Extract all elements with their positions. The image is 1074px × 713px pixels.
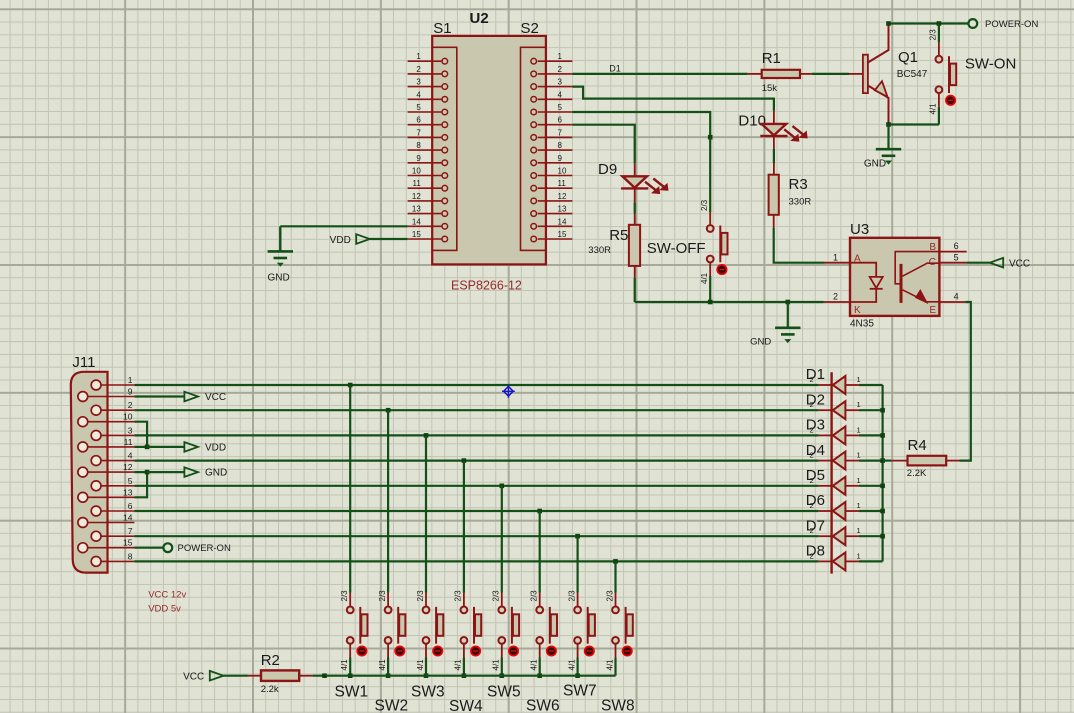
svg-text:12: 12 xyxy=(123,462,133,472)
svg-text:1: 1 xyxy=(857,501,861,510)
svg-text:SW-ON: SW-ON xyxy=(965,56,1016,73)
svg-text:SW5: SW5 xyxy=(487,684,521,701)
svg-text:2/3: 2/3 xyxy=(454,590,463,602)
svg-text:2: 2 xyxy=(810,526,814,535)
svg-text:1: 1 xyxy=(833,252,838,262)
svg-text:4/1: 4/1 xyxy=(530,659,539,671)
svg-text:R4: R4 xyxy=(908,437,927,454)
svg-text:3: 3 xyxy=(558,78,563,87)
svg-text:U3: U3 xyxy=(850,221,869,238)
svg-text:SW3: SW3 xyxy=(411,684,445,701)
svg-text:1: 1 xyxy=(857,425,861,434)
svg-text:SW4: SW4 xyxy=(449,698,483,713)
svg-text:10: 10 xyxy=(123,412,133,422)
svg-text:7: 7 xyxy=(558,128,563,137)
svg-text:2/3: 2/3 xyxy=(416,590,425,602)
svg-text:2: 2 xyxy=(833,292,838,302)
svg-text:2: 2 xyxy=(810,451,814,460)
svg-text:GND: GND xyxy=(205,468,227,479)
svg-text:15: 15 xyxy=(558,230,567,239)
svg-text:POWER-ON: POWER-ON xyxy=(178,543,231,554)
svg-text:VCC: VCC xyxy=(205,392,226,403)
svg-text:R3: R3 xyxy=(789,176,808,193)
svg-text:2/3: 2/3 xyxy=(605,590,614,602)
svg-text:U2: U2 xyxy=(470,10,489,27)
svg-text:2/3: 2/3 xyxy=(700,199,709,211)
svg-text:SW-OFF: SW-OFF xyxy=(647,240,706,257)
svg-text:J11: J11 xyxy=(72,354,95,371)
svg-text:2: 2 xyxy=(810,400,814,409)
svg-text:14: 14 xyxy=(558,217,567,226)
svg-text:4/1: 4/1 xyxy=(492,659,501,671)
svg-text:4: 4 xyxy=(558,90,563,99)
svg-text:10: 10 xyxy=(412,167,421,176)
svg-text:VCC 12v: VCC 12v xyxy=(148,590,186,601)
svg-text:2/3: 2/3 xyxy=(340,590,349,602)
svg-text:D10: D10 xyxy=(738,113,766,130)
svg-text:E: E xyxy=(929,305,936,316)
svg-text:1: 1 xyxy=(857,526,861,535)
svg-text:4/1: 4/1 xyxy=(454,659,463,671)
svg-text:14: 14 xyxy=(412,217,421,226)
svg-text:1: 1 xyxy=(857,451,861,460)
svg-text:10: 10 xyxy=(558,167,567,176)
svg-text:15: 15 xyxy=(123,538,133,548)
svg-text:1: 1 xyxy=(857,476,861,485)
svg-text:D9: D9 xyxy=(598,161,617,178)
svg-text:SW7: SW7 xyxy=(563,683,597,700)
svg-text:1: 1 xyxy=(416,52,421,61)
svg-text:GND: GND xyxy=(864,159,886,170)
svg-text:11: 11 xyxy=(412,179,421,188)
svg-text:4/1: 4/1 xyxy=(700,272,709,284)
svg-text:Q1: Q1 xyxy=(898,49,918,66)
svg-text:330R: 330R xyxy=(789,197,812,208)
svg-text:9: 9 xyxy=(558,154,563,163)
svg-text:8: 8 xyxy=(558,141,563,150)
svg-text:VCC: VCC xyxy=(1009,259,1030,270)
svg-text:4N35: 4N35 xyxy=(850,319,874,330)
svg-text:1: 1 xyxy=(558,52,563,61)
svg-text:4/1: 4/1 xyxy=(340,659,349,671)
svg-text:12: 12 xyxy=(558,192,567,201)
svg-text:2: 2 xyxy=(416,65,421,74)
svg-text:5: 5 xyxy=(954,252,959,262)
svg-text:BC547: BC547 xyxy=(897,69,928,80)
svg-text:7: 7 xyxy=(416,128,421,137)
svg-text:9: 9 xyxy=(416,154,421,163)
svg-text:2: 2 xyxy=(810,375,814,384)
svg-text:2/3: 2/3 xyxy=(492,590,501,602)
svg-text:4/1: 4/1 xyxy=(567,659,576,671)
svg-text:4/1: 4/1 xyxy=(378,659,387,671)
svg-text:13: 13 xyxy=(123,487,133,497)
svg-text:1: 1 xyxy=(857,400,861,409)
svg-text:4/1: 4/1 xyxy=(416,659,425,671)
svg-text:K: K xyxy=(854,305,861,316)
svg-text:4: 4 xyxy=(416,90,421,99)
svg-text:VDD 5v: VDD 5v xyxy=(148,604,181,615)
svg-text:SW2: SW2 xyxy=(375,698,409,713)
svg-text:2/3: 2/3 xyxy=(530,590,539,602)
svg-text:GND: GND xyxy=(750,337,771,348)
svg-text:VCC: VCC xyxy=(183,672,204,683)
svg-text:S1: S1 xyxy=(433,20,451,37)
svg-text:2.2k: 2.2k xyxy=(261,684,279,695)
svg-text:2.2K: 2.2K xyxy=(907,468,927,479)
svg-text:9: 9 xyxy=(128,387,133,397)
svg-text:4: 4 xyxy=(954,292,959,302)
svg-text:5: 5 xyxy=(558,103,563,112)
svg-text:SW1: SW1 xyxy=(335,684,369,701)
svg-text:SW8: SW8 xyxy=(601,698,635,713)
svg-text:14: 14 xyxy=(123,513,133,523)
svg-text:VDD: VDD xyxy=(205,442,226,453)
svg-text:6: 6 xyxy=(558,116,563,125)
svg-text:2: 2 xyxy=(810,476,814,485)
svg-text:1: 1 xyxy=(128,375,133,385)
svg-text:11: 11 xyxy=(124,437,133,447)
svg-text:R2: R2 xyxy=(261,652,280,669)
svg-text:4: 4 xyxy=(128,451,133,461)
svg-text:2/3: 2/3 xyxy=(929,29,938,41)
svg-text:D1: D1 xyxy=(609,63,621,73)
svg-text:4/1: 4/1 xyxy=(929,103,938,115)
svg-text:330R: 330R xyxy=(588,245,611,256)
svg-text:3: 3 xyxy=(128,425,133,435)
svg-text:ESP8266-12: ESP8266-12 xyxy=(451,279,522,293)
svg-text:5: 5 xyxy=(128,476,133,486)
svg-text:R5: R5 xyxy=(609,227,628,244)
svg-text:13: 13 xyxy=(558,205,567,214)
svg-text:6: 6 xyxy=(128,501,133,511)
svg-text:2: 2 xyxy=(558,65,563,74)
svg-text:1: 1 xyxy=(857,551,861,560)
svg-text:11: 11 xyxy=(558,179,567,188)
svg-text:GND: GND xyxy=(267,273,289,284)
svg-text:2: 2 xyxy=(810,551,814,560)
svg-text:15: 15 xyxy=(412,230,421,239)
svg-text:8: 8 xyxy=(128,551,133,561)
svg-text:7: 7 xyxy=(128,526,133,536)
svg-text:R1: R1 xyxy=(762,50,781,67)
svg-text:12: 12 xyxy=(412,192,421,201)
svg-text:3: 3 xyxy=(416,78,421,87)
svg-text:2/3: 2/3 xyxy=(567,590,576,602)
svg-text:15k: 15k xyxy=(762,83,778,94)
svg-text:VDD: VDD xyxy=(330,235,351,246)
svg-text:POWER-ON: POWER-ON xyxy=(985,19,1038,30)
svg-text:1: 1 xyxy=(857,375,861,384)
svg-text:2: 2 xyxy=(810,425,814,434)
svg-text:6: 6 xyxy=(954,241,959,251)
svg-text:4/1: 4/1 xyxy=(605,659,614,671)
svg-text:S2: S2 xyxy=(521,20,539,37)
svg-text:8: 8 xyxy=(416,141,421,150)
svg-text:5: 5 xyxy=(416,103,421,112)
svg-text:2: 2 xyxy=(810,501,814,510)
svg-text:6: 6 xyxy=(416,116,421,125)
svg-text:SW6: SW6 xyxy=(526,698,560,713)
svg-text:13: 13 xyxy=(412,205,421,214)
svg-text:2: 2 xyxy=(128,400,133,410)
svg-text:2/3: 2/3 xyxy=(378,590,387,602)
